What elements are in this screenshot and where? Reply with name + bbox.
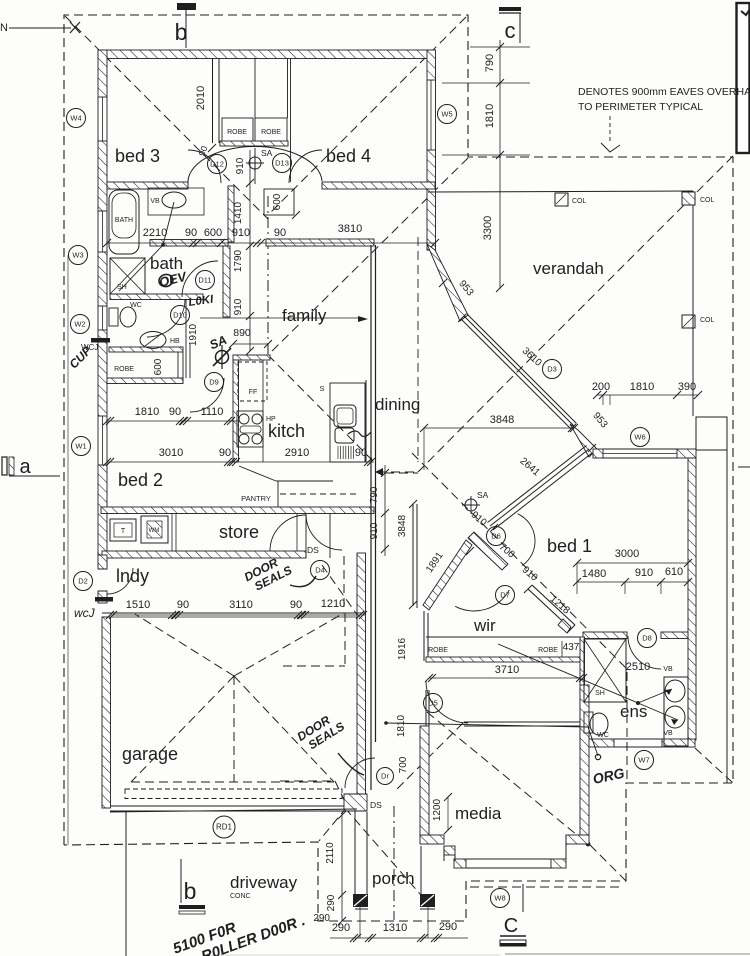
store washing machine WM <box>141 516 168 543</box>
wall: west exterior W4-W3 <box>98 141 107 211</box>
svg-text:90: 90 <box>355 447 367 459</box>
driveway west edge <box>125 812 127 956</box>
svg-text:media: media <box>455 804 502 823</box>
svg-text:RD1: RD1 <box>216 823 233 832</box>
svg-text:VB: VB <box>663 730 673 737</box>
wall: bed1 north wall W <box>593 449 603 458</box>
door lndy-store arc <box>270 515 306 551</box>
svg-text:90: 90 <box>185 227 197 239</box>
wall: bath east / hall west <box>223 246 230 317</box>
svg-text:910: 910 <box>635 567 653 579</box>
smoke alarm SA hall <box>249 157 261 169</box>
window W8 <box>466 858 551 860</box>
label circle W7 <box>635 751 654 770</box>
media hip diagonal <box>427 712 588 844</box>
basin HB <box>140 332 166 349</box>
svg-text:family: family <box>282 306 327 325</box>
door D11 bath <box>182 261 218 297</box>
window W5 <box>426 80 428 150</box>
svg-text:1310: 1310 <box>383 922 407 934</box>
window W3 <box>97 211 99 252</box>
wall: garage west wall <box>102 617 111 808</box>
label circle RD1 <box>213 816 235 838</box>
svg-text:a: a <box>19 456 31 478</box>
svg-text:290: 290 <box>439 921 457 933</box>
svg-text:910: 910 <box>369 522 380 539</box>
dining valley horizontal <box>377 471 418 473</box>
svg-text:600: 600 <box>153 358 164 375</box>
section mark b top <box>177 3 196 10</box>
wall: ens west wall <box>580 637 585 747</box>
label circle D8 <box>638 629 657 648</box>
svg-text:610: 610 <box>665 566 683 578</box>
wir west wall <box>423 611 425 661</box>
svg-text:garage: garage <box>122 744 178 764</box>
svg-text:1810: 1810 <box>630 381 654 393</box>
window W4 <box>97 97 99 141</box>
wir valley diagonal <box>412 453 628 670</box>
wall: media south wall w <box>454 859 466 868</box>
svg-text:W4: W4 <box>70 114 81 123</box>
door D8 ens <box>628 636 661 669</box>
label circle W6 <box>631 428 650 447</box>
svg-text:SA: SA <box>261 148 273 158</box>
corridor east wall <box>412 504 414 606</box>
svg-text:1916: 1916 <box>397 637 408 660</box>
wall: west exterior upper <box>98 50 107 97</box>
wall: corridor NE diagonal wall 1891 <box>423 540 472 610</box>
wall: bed1 east wall <box>688 458 696 740</box>
svg-text:1110: 1110 <box>201 406 224 418</box>
svg-text:DENOTES 900mm EAVES OVERHANG: DENOTES 900mm EAVES OVERHANG <box>578 86 750 98</box>
svg-text:PANTRY: PANTRY <box>241 494 271 503</box>
svg-text:W3: W3 <box>72 251 83 260</box>
family leader arrow <box>200 317 362 319</box>
section mark c top <box>499 7 521 11</box>
kitchen east bench wall <box>365 380 367 462</box>
label circle W1 <box>72 437 91 456</box>
svg-text:3010: 3010 <box>159 447 183 459</box>
verandah slab edge east <box>692 191 694 416</box>
svg-text:1810: 1810 <box>484 104 496 128</box>
dim 3848 dining <box>424 427 574 429</box>
svg-text:bed 1: bed 1 <box>547 536 592 556</box>
smoke alarm SA hall2 <box>465 499 477 511</box>
sink cable squiggle <box>348 431 371 437</box>
svg-text:390: 390 <box>678 381 696 393</box>
dim 1200 line media <box>447 797 449 830</box>
roof hip NW <box>65 16 268 219</box>
svg-text:290: 290 <box>313 913 330 924</box>
wall: kitchen west <box>233 360 239 462</box>
label circle D6 <box>487 527 506 546</box>
dining valley diagonal <box>418 356 533 472</box>
garage hip SE <box>234 676 334 782</box>
svg-text:3810: 3810 <box>338 223 362 235</box>
label circle D11 <box>196 271 215 290</box>
garage valley L horizontal <box>283 665 345 667</box>
svg-text:C: C <box>504 915 518 937</box>
col mid-right <box>682 315 695 328</box>
svg-text:HB: HB <box>170 338 180 345</box>
svg-text:D2: D2 <box>78 577 88 586</box>
svg-text:T: T <box>121 528 126 535</box>
window W7 <box>614 738 662 740</box>
svg-text:2010: 2010 <box>195 86 207 110</box>
wall: bath-wc divider <box>110 294 203 300</box>
svg-text:D6: D6 <box>491 532 501 541</box>
svg-text:D13: D13 <box>275 159 289 168</box>
corridor roofline vertical <box>417 237 419 462</box>
wall: robe bed2 bottom <box>107 378 183 384</box>
svg-text:1410: 1410 <box>233 201 244 224</box>
svg-text:store: store <box>219 522 259 542</box>
eaves note leader <box>609 116 611 143</box>
dim col right top <box>499 40 501 289</box>
svg-text:SH: SH <box>595 690 605 697</box>
handwriting DOOR SEALS (garage) <box>295 708 347 755</box>
wall: media east step <box>566 835 589 844</box>
svg-text:1510: 1510 <box>126 599 150 611</box>
wall: west exterior W3-W2 <box>98 252 107 306</box>
media north wall <box>464 721 580 723</box>
bath pointer line <box>163 202 174 245</box>
svg-text:290: 290 <box>326 894 337 911</box>
porch ridge (dash-dot) <box>393 806 395 920</box>
porch hip diagonal <box>345 808 420 894</box>
svg-text:N: N <box>0 22 8 34</box>
label circle W4 <box>67 109 86 128</box>
svg-text:COL: COL <box>700 317 715 324</box>
wall: ens south wall w <box>583 739 614 747</box>
D5 corner valley <box>396 723 463 790</box>
svg-text:1200: 1200 <box>432 798 443 821</box>
dim 3000 bed1 <box>577 562 688 564</box>
roller door dashed box <box>125 789 342 799</box>
svg-text:1810: 1810 <box>396 714 407 737</box>
wall: top exterior <box>98 50 435 59</box>
svg-text:BATH: BATH <box>115 217 133 224</box>
wc fixture <box>120 307 136 327</box>
svg-text:driveway: driveway <box>230 873 298 892</box>
svg-text:c: c <box>505 18 516 43</box>
door D13 bed4 <box>289 150 322 183</box>
svg-text:890: 890 <box>233 327 251 339</box>
wall: garage east wall <box>357 553 366 806</box>
diag ticks <box>439 279 447 287</box>
dim row bed1 1480/910/610 <box>577 581 688 583</box>
store tub T <box>110 519 136 541</box>
svg-text:Dr: Dr <box>381 772 389 781</box>
svg-text:SA: SA <box>477 490 489 500</box>
verandah hip <box>533 156 733 356</box>
porch west edge <box>354 796 356 896</box>
wall: family north <box>266 239 374 246</box>
robe boxes bed3/bed4 hall <box>222 118 253 143</box>
ens roof dash vertical <box>626 672 628 781</box>
svg-text:ROBE: ROBE <box>227 129 247 136</box>
wall: media west jog <box>420 835 444 844</box>
wall: wir corner wall <box>558 619 571 633</box>
arch entry double doors D12 D13 <box>188 146 322 184</box>
label circle W2 <box>71 315 90 334</box>
label circle D4 <box>311 561 330 580</box>
svg-text:porch: porch <box>372 869 415 888</box>
garage base dash extension <box>280 780 335 782</box>
svg-text:90: 90 <box>290 599 302 611</box>
svg-text:790: 790 <box>484 54 496 72</box>
dim row bath/bed3 <box>107 242 435 244</box>
wall: media west wall <box>420 726 429 835</box>
window W1 <box>97 416 99 465</box>
media east step v <box>565 835 567 859</box>
wall: bed4 east exterior upper <box>427 50 436 80</box>
svg-text:VB: VB <box>150 198 160 205</box>
svg-text:W6: W6 <box>634 433 645 442</box>
dim row porch <box>330 937 468 939</box>
label circle D3 <box>543 360 562 379</box>
garage hip SW <box>131 676 234 782</box>
garage roof base <box>131 781 334 783</box>
svg-text:910: 910 <box>233 298 244 315</box>
wall: bed1 north wall E <box>677 449 696 458</box>
svg-text:CONC: CONC <box>230 893 251 900</box>
svg-text:600: 600 <box>204 227 222 239</box>
store door jamb <box>305 513 307 558</box>
bath tub <box>109 190 139 254</box>
shower bath <box>110 258 145 294</box>
svg-text:910: 910 <box>235 157 246 174</box>
svg-text:1480: 1480 <box>582 568 606 580</box>
eaves double line under media <box>470 886 620 888</box>
bottom page edge fragment <box>505 953 750 955</box>
store shelf lines <box>171 513 173 551</box>
sink unit <box>330 383 365 462</box>
svg-text:700: 700 <box>398 756 409 773</box>
wall: media west step bottom <box>444 846 455 855</box>
label circle D5 <box>424 694 443 713</box>
svg-text:600: 600 <box>272 193 283 210</box>
wall: west exterior W2-W1 <box>98 330 107 416</box>
label circle W3 <box>69 246 88 265</box>
svg-text:WC: WC <box>130 302 142 309</box>
svg-text:90: 90 <box>169 406 181 418</box>
label circle D12 <box>208 155 227 174</box>
door D6 bed1 <box>518 514 535 566</box>
svg-text:FF: FF <box>249 389 258 396</box>
label circle D13 <box>273 154 292 173</box>
porch slab bottom <box>355 908 368 910</box>
wall: kitchen north <box>233 355 270 360</box>
ens vanity <box>664 677 688 746</box>
corridor dim col <box>384 465 386 556</box>
svg-text:3000: 3000 <box>615 548 639 560</box>
svg-text:90: 90 <box>274 227 286 239</box>
wall: media south wall e <box>551 859 566 868</box>
wall: family north west part <box>150 240 228 247</box>
roof valley ridge-to-pantry <box>268 355 373 461</box>
svg-text:2210: 2210 <box>143 227 167 239</box>
wall: west exterior below D2 <box>98 591 107 603</box>
svg-text:b: b <box>184 878 197 904</box>
wall: bath north / arch wall west <box>107 182 188 189</box>
kitchen roof dash at y473 <box>385 472 418 474</box>
robe bed2 box side <box>177 352 179 378</box>
roof valley eaves-corner-to-ridge <box>268 158 468 355</box>
svg-text:D3: D3 <box>547 365 557 374</box>
label circle D10 <box>171 306 190 325</box>
WCJ bar lndy <box>95 597 113 602</box>
verandah corner pier outline <box>696 417 727 450</box>
porch east edge <box>420 846 422 894</box>
bed4 robe 600 box <box>264 189 294 215</box>
svg-text:3848: 3848 <box>490 414 514 426</box>
eaves corner diagonal media SE <box>590 845 626 881</box>
svg-text:1810: 1810 <box>135 406 159 418</box>
svg-text:bed 4: bed 4 <box>326 146 371 166</box>
title block fragment top right <box>737 3 750 153</box>
svg-text:S: S <box>319 384 324 393</box>
svg-text:wir: wir <box>473 616 496 635</box>
wall: ens south wall e <box>662 739 695 747</box>
door D9 hall-bed2 <box>190 378 224 412</box>
svg-text:ROBE: ROBE <box>114 366 134 373</box>
kitchen hotplate HP <box>237 411 263 447</box>
garage hip NE <box>234 613 344 676</box>
svg-text:D10: D10 <box>173 311 187 320</box>
svg-text:b: b <box>175 19 188 45</box>
porch piers <box>353 894 368 907</box>
boundary line left <box>67 255 69 845</box>
svg-text:W5: W5 <box>441 110 452 119</box>
garage hip NW <box>135 614 234 676</box>
eaves corner diagonal SE ens <box>695 748 733 783</box>
gutter line east of bed1 <box>726 450 728 783</box>
svg-text:W2: W2 <box>74 320 85 329</box>
door D7 wir <box>455 590 509 611</box>
kitchen bench edge <box>262 360 264 462</box>
svg-text:COL: COL <box>700 197 715 204</box>
kitchen fridge FF <box>238 362 267 401</box>
svg-text:D8: D8 <box>642 634 652 643</box>
svg-text:D7: D7 <box>500 591 510 600</box>
svg-text:wcJ: wcJ <box>74 606 96 620</box>
svg-text:D9: D9 <box>209 378 219 387</box>
svg-text:437: 437 <box>563 642 580 653</box>
media west step v <box>443 846 445 861</box>
label circle D9 <box>205 373 224 392</box>
col top-left <box>555 193 568 206</box>
media west upper jamb <box>425 690 427 726</box>
wall: lndy west wall <box>98 555 107 569</box>
svg-text:D11: D11 <box>198 276 211 285</box>
section mark b bottom <box>180 859 182 903</box>
porch extension lines <box>359 907 361 938</box>
wall: media east wall <box>580 685 589 835</box>
door D12 bed3 <box>188 150 221 183</box>
wall: bed1 NW corner diagonal <box>570 424 597 457</box>
svg-text:3710: 3710 <box>495 664 519 676</box>
wall: west exterior W1-D2 <box>98 465 107 568</box>
door Dr porch <box>345 758 375 788</box>
wall: bed2/store north wall <box>101 507 374 514</box>
svg-text:910: 910 <box>232 227 250 239</box>
svg-text:3848: 3848 <box>397 514 408 537</box>
svg-text:90: 90 <box>219 447 231 459</box>
svg-text:lndy: lndy <box>116 566 149 586</box>
wall: hall west wall upper <box>228 186 234 242</box>
svg-text:2910: 2910 <box>285 447 309 459</box>
door D4 store-garage <box>306 514 342 550</box>
svg-text:kitch: kitch <box>268 421 305 441</box>
wall: store south wall <box>102 551 306 558</box>
window W6 <box>603 448 677 450</box>
dim col 2110/290 porch <box>341 812 343 921</box>
svg-text:WM: WM <box>149 528 160 534</box>
label circle Dr <box>377 768 394 785</box>
svg-text:DS: DS <box>307 545 319 555</box>
bed3 robe divider wall <box>212 58 214 143</box>
garage valley L vertical <box>344 613 346 666</box>
svg-text:D4: D4 <box>315 566 325 575</box>
svg-text:COL: COL <box>572 198 587 205</box>
svg-text:1910: 1910 <box>188 323 199 346</box>
WCJ bar bath level <box>91 338 110 343</box>
bath vanity VB <box>162 192 186 208</box>
hall wall piece left of D9 <box>185 299 187 378</box>
svg-text:verandah: verandah <box>533 259 604 278</box>
robe side walls to top <box>254 58 256 118</box>
wir robe band <box>426 636 580 638</box>
svg-text:2510: 2510 <box>626 661 650 673</box>
D7 wall diagonal 1218 <box>528 589 571 629</box>
roof hip NE <box>268 17 466 215</box>
roof ridge (dash-dot) <box>267 196 269 358</box>
store-media roofline vertical <box>343 556 345 612</box>
DS door D4 opening <box>329 513 331 558</box>
svg-text:200: 200 <box>592 381 610 393</box>
wiring pointer lines <box>386 723 588 727</box>
D2 opening jambs <box>98 568 107 570</box>
label circle W8 <box>491 889 510 908</box>
lndy south edge / garage north <box>102 612 365 614</box>
handwriting DOOR SEALS (store) <box>242 551 294 595</box>
svg-text:SH: SH <box>117 284 127 291</box>
svg-text:3110: 3110 <box>229 599 253 611</box>
svg-text:ROBE: ROBE <box>261 129 281 136</box>
bed1 NW diagonal window wall 2641 <box>493 453 592 530</box>
wall: hall corner wall D6-D7 <box>468 532 508 570</box>
svg-text:290: 290 <box>332 922 350 934</box>
svg-text:ROBE: ROBE <box>428 647 448 654</box>
label circle D7 <box>496 586 515 605</box>
garage slab front line <box>110 809 357 812</box>
window W2 <box>97 306 99 330</box>
garage ridge vertical <box>233 676 235 782</box>
svg-text:ROBE: ROBE <box>538 647 558 654</box>
svg-text:W7: W7 <box>638 756 649 765</box>
svg-text:D5: D5 <box>428 699 438 708</box>
section mark C bottom <box>522 884 524 912</box>
garage door opening (south) <box>110 805 357 807</box>
dim row lndy <box>110 614 365 616</box>
wall: garage SE corner <box>344 794 367 811</box>
door D2 lndy <box>107 568 133 594</box>
wall: bed4 east exterior lower <box>427 150 436 250</box>
ens shower <box>584 639 626 702</box>
dim row bed2/kitchen <box>107 461 374 463</box>
svg-text:2110: 2110 <box>325 842 336 864</box>
